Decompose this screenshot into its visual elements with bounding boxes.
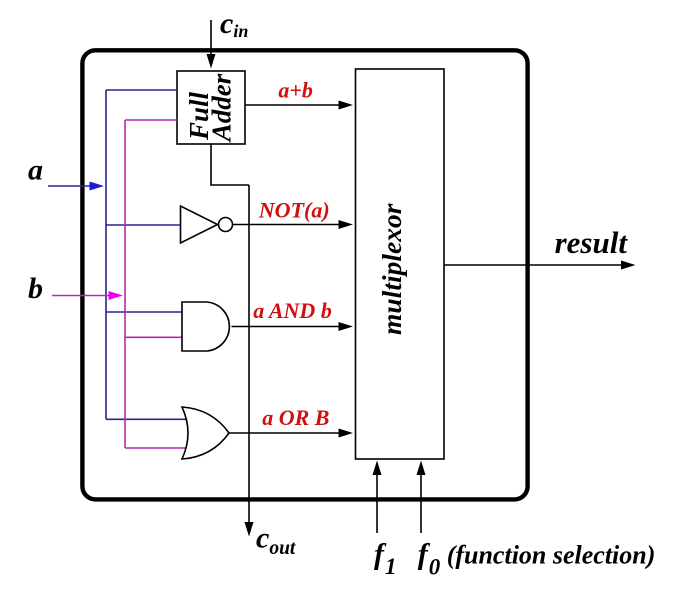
arrowhead AND output into multiplexor <box>339 322 354 331</box>
arrowhead OR output into multiplexor <box>339 429 354 438</box>
wire b input horizontal <box>52 295 112 297</box>
wire full adder sum output <box>245 104 342 106</box>
full adder U1 <box>177 71 245 144</box>
arrowhead result <box>621 261 636 270</box>
wire b vertical bus <box>124 120 126 448</box>
wire a branch to NOT gate <box>106 224 181 226</box>
svg-text:NOT(a): NOT(a) <box>258 198 330 223</box>
wire a branch to full adder <box>106 89 177 91</box>
label Full Adder (rotated) <box>184 73 237 143</box>
svg-text:a+b: a+b <box>278 78 313 103</box>
arrowhead c_out <box>245 522 254 537</box>
arrowhead sum into multiplexor <box>339 101 354 110</box>
AND gate <box>182 302 229 351</box>
wire result output <box>444 264 623 266</box>
arrowhead f1 into multiplexor <box>373 461 382 476</box>
wire c_in vertical <box>210 20 212 56</box>
wire AND output <box>232 326 343 328</box>
svg-text:a OR B: a OR B <box>262 405 329 430</box>
multiplexor box U2 <box>356 69 445 459</box>
arrowhead f0 into multiplexor <box>417 461 426 476</box>
arrowhead b input <box>109 291 124 300</box>
wire a branch to OR gate <box>106 418 190 420</box>
wire OR output <box>229 432 342 434</box>
arrowhead NOT output into multiplexor <box>339 220 354 229</box>
wire b branch to OR gate <box>125 447 187 449</box>
wire f0 select <box>420 473 422 533</box>
OR gate <box>182 407 229 459</box>
svg-text:a: a <box>28 154 43 187</box>
arrowhead a input <box>90 182 105 191</box>
wire c_out vertical <box>248 185 250 524</box>
enclosure box (ALU outline) <box>82 50 527 499</box>
wire NOT output <box>233 224 343 226</box>
svg-text:multiplexor: multiplexor <box>376 203 407 335</box>
svg-text:Adder: Adder <box>207 73 237 143</box>
svg-text:result: result <box>555 225 629 260</box>
wire carry from full adder down and across <box>211 144 249 185</box>
NOT gate (inverter) <box>181 206 218 243</box>
wire a branch to AND gate <box>106 311 182 313</box>
NOT gate bubble <box>219 218 233 232</box>
wire b branch to AND gate <box>125 336 182 338</box>
wire a input horizontal <box>48 185 93 187</box>
svg-text:a AND b: a AND b <box>253 298 332 323</box>
wire a vertical bus <box>105 90 107 419</box>
svg-text:b: b <box>28 272 43 305</box>
arrowhead c_in into full adder <box>207 54 216 69</box>
wire f1 select <box>376 473 378 533</box>
wire b branch to full adder <box>125 119 177 121</box>
